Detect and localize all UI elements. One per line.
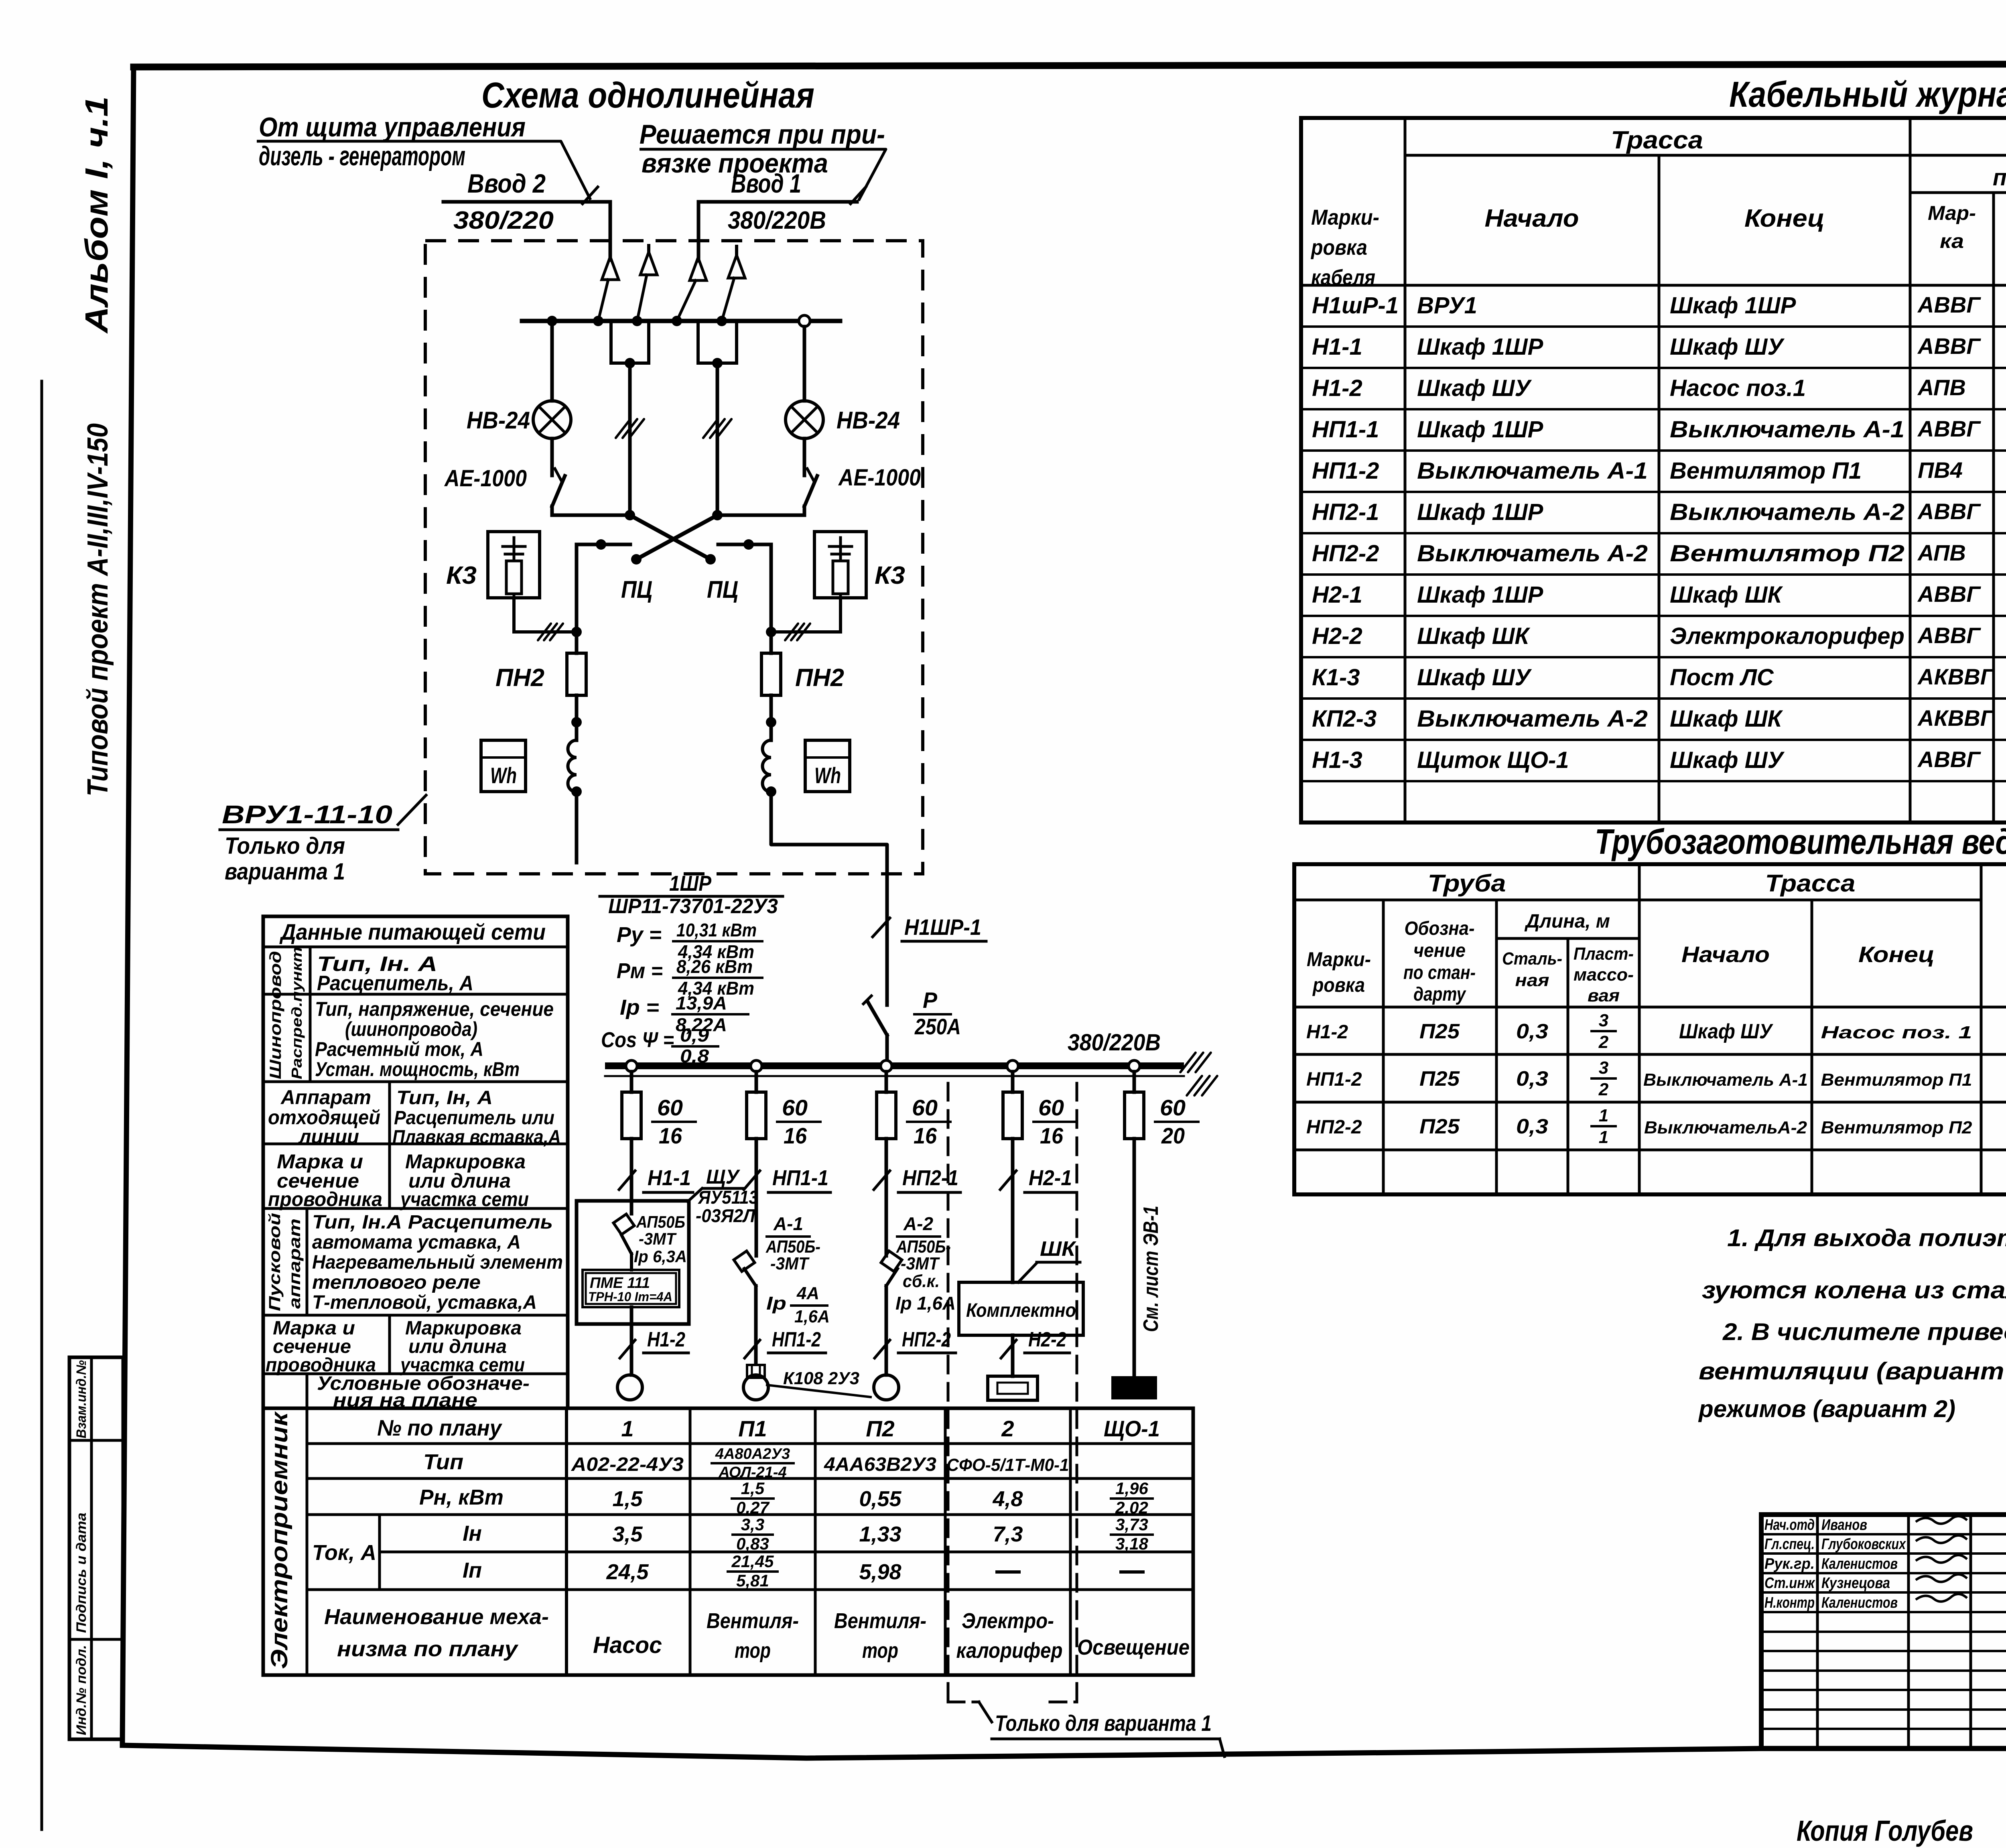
svg-text:Шинопровод: Шинопровод xyxy=(267,951,284,1079)
svg-text:Cos Ψ =: Cos Ψ = xyxy=(601,1028,674,1052)
svg-text:Нач.отд: Нач.отд xyxy=(1764,1517,1815,1533)
handwritten Копия Голубев xyxy=(1797,1815,1973,1847)
svg-text:А02-22-4У3: А02-22-4У3 xyxy=(571,1454,684,1475)
svg-text:Н1-2: Н1-2 xyxy=(1306,1021,1348,1043)
svg-text:чение: чение xyxy=(1413,940,1466,961)
svg-text:Шкаф ШУ: Шкаф ШУ xyxy=(1679,1020,1773,1043)
svg-text:Iр =: Iр = xyxy=(620,995,659,1019)
bottom-left stamp grid xyxy=(69,1357,123,1739)
wire breaker А-2 to motor П2 xyxy=(885,1286,888,1375)
svg-text:Шкаф ШУ: Шкаф ШУ xyxy=(1417,375,1532,401)
svg-text:Кузнецова: Кузнецова xyxy=(1821,1575,1890,1592)
wire right column to feeder exit xyxy=(771,792,887,874)
svg-text:АЕ-1000: АЕ-1000 xyxy=(838,465,921,491)
svg-text:АКВВГ: АКВВГ xyxy=(1917,705,1995,731)
svg-text:1: 1 xyxy=(621,1416,633,1441)
winding right (transformer coil) xyxy=(763,740,777,797)
svg-text:Ток, А: Ток, А xyxy=(312,1541,376,1565)
svg-text:4АА63В2У3: 4АА63В2У3 xyxy=(824,1454,936,1475)
svg-text:ровка: ровка xyxy=(1310,236,1367,260)
svg-text:ШК: ШК xyxy=(1040,1237,1076,1261)
svg-text:3,3: 3,3 xyxy=(741,1515,764,1534)
heater ЕК (Электрокалорифер) xyxy=(988,1376,1038,1400)
svg-text:Iр 6,3А: Iр 6,3А xyxy=(634,1247,687,1266)
svg-text:Iп: Iп xyxy=(463,1558,482,1582)
cable mark slashes right middle xyxy=(703,419,718,438)
svg-text:НП1-2: НП1-2 xyxy=(772,1328,821,1351)
svg-text:Вентиля-: Вентиля- xyxy=(834,1609,926,1633)
node bus tap 2 xyxy=(751,1060,762,1072)
svg-text:Выключатель А-2: Выключатель А-2 xyxy=(1417,706,1648,732)
formula Ру xyxy=(617,920,762,962)
svg-text:по проекту: по проекту xyxy=(1993,164,2006,191)
pipe row Н1-2 xyxy=(1306,1011,2006,1052)
svg-text:20: 20 xyxy=(1161,1123,1185,1148)
svg-text:ЩО-1: ЩО-1 xyxy=(1104,1416,1160,1441)
svg-text:Н2-2: Н2-2 xyxy=(1028,1328,1066,1351)
wire tap5 to panel ЩО-1 xyxy=(1133,1139,1136,1375)
svg-text:1,5: 1,5 xyxy=(612,1487,643,1511)
svg-text:60: 60 xyxy=(1038,1095,1064,1120)
svg-text:Плавкая вставка,А: Плавкая вставка,А xyxy=(392,1127,561,1148)
svg-text:Только для варианта 1: Только для варианта 1 xyxy=(995,1710,1212,1736)
svg-text:Тип: Тип xyxy=(423,1450,463,1474)
svg-text:Длина, м: Длина, м xyxy=(1524,911,1610,932)
svg-text:ПН2: ПН2 xyxy=(795,664,844,692)
svg-text:Глубоковских: Глубоковских xyxy=(1821,1536,1906,1553)
wire tap1 to cabinet ШУ xyxy=(630,1139,633,1214)
sheet frame bottom border xyxy=(122,1745,2006,1758)
svg-text:Каленистов: Каленистов xyxy=(1821,1594,1898,1611)
wire tap2 to breaker А-1 xyxy=(755,1139,758,1256)
svg-text:1: 1 xyxy=(1599,1127,1608,1147)
label А-2 АП50Б- -3МТ сб.к. xyxy=(896,1213,951,1291)
cell Аппарат отходящей линии xyxy=(268,1086,380,1148)
svg-text:ШР11-73701-22У3: ШР11-73701-22У3 xyxy=(608,895,778,918)
svg-text:0,3: 0,3 xyxy=(1516,1067,1548,1091)
label 60/16 xyxy=(1033,1095,1077,1148)
svg-text:2: 2 xyxy=(1598,1080,1609,1099)
svg-text:№ по плану: № по плану xyxy=(377,1415,503,1440)
svg-text:калорифер: калорифер xyxy=(956,1639,1063,1663)
crossover link ПЦ xyxy=(630,515,717,565)
svg-text:1,96: 1,96 xyxy=(1115,1479,1148,1498)
wire right pair to common point xyxy=(698,321,737,515)
circuit breaker А-1 АП50Б-3МТ xyxy=(734,1251,756,1286)
svg-text:Щиток ЩО-1: Щиток ЩО-1 xyxy=(1417,747,1569,773)
svg-text:НП2-1: НП2-1 xyxy=(902,1166,958,1190)
svg-text:Насос поз. 1: Насос поз. 1 xyxy=(1821,1023,1972,1042)
svg-text:АПВ: АПВ xyxy=(1917,375,1966,400)
svg-text:16: 16 xyxy=(659,1123,682,1148)
wire to right lamp xyxy=(803,327,806,401)
svg-text:3: 3 xyxy=(1599,1011,1608,1030)
svg-text:250А: 250А xyxy=(914,1014,961,1039)
svg-text:Марки-: Марки- xyxy=(1311,205,1379,229)
cable mark Н1-1 xyxy=(619,1166,693,1192)
wire bus upper xyxy=(522,319,840,323)
svg-text:60: 60 xyxy=(657,1095,683,1120)
svg-text:проводника: проводника xyxy=(268,1188,382,1210)
svg-text:Рм =: Рм = xyxy=(617,959,663,983)
label Р/250А xyxy=(914,987,961,1039)
label Iр 4А/1,6А xyxy=(766,1283,830,1326)
busbar 380/220В xyxy=(605,1062,1184,1076)
svg-text:1: 1 xyxy=(1599,1106,1608,1125)
wire К3 left to main xyxy=(514,598,582,637)
svg-text:Наименование меха-: Наименование меха- xyxy=(324,1605,549,1629)
svg-text:НП1-2: НП1-2 xyxy=(1306,1069,1362,1090)
svg-text:Шкаф ШК: Шкаф ШК xyxy=(1670,582,1783,608)
svg-text:Только для: Только для xyxy=(225,833,345,859)
svg-text:(шинопровода): (шинопровода) xyxy=(345,1018,477,1040)
svg-text:Трасса: Трасса xyxy=(1611,126,1703,154)
winding left (transformer coil) xyxy=(568,740,582,797)
svg-text:Вентиля-: Вентиля- xyxy=(707,1609,799,1633)
node open terminal on upper bus xyxy=(799,315,810,327)
formula Cos φ xyxy=(601,1025,718,1066)
svg-text:вентиляции (вариант 1), а в: вентиляции (вариант 1), а в знаменателе … xyxy=(1699,1358,2006,1385)
svg-text:0,83: 0,83 xyxy=(736,1534,769,1553)
wire left pair to common point xyxy=(611,321,649,515)
svg-text:Шкаф 1ШР: Шкаф 1ШР xyxy=(1417,499,1543,525)
svg-text:ная: ная xyxy=(1515,971,1549,990)
svg-text:ЯУ5113: ЯУ5113 xyxy=(698,1187,758,1208)
svg-text:Обозна-: Обозна- xyxy=(1405,918,1475,939)
svg-text:П25: П25 xyxy=(1419,1067,1460,1091)
svg-text:Электрокалорифер: Электрокалорифер xyxy=(1670,623,1904,649)
switch SA2 АЕ-1000 right xyxy=(804,469,817,515)
signature row Рук.гр. Каленистов xyxy=(1764,1555,1967,1572)
svg-text:Рн, кВт: Рн, кВт xyxy=(419,1485,504,1509)
wire right outgoing bracket xyxy=(718,539,771,632)
svg-text:Н2-2: Н2-2 xyxy=(1312,623,1362,649)
svg-text:Вентилятор П1: Вентилятор П1 xyxy=(1821,1070,1972,1090)
svg-text:Освещение: Освещение xyxy=(1077,1635,1190,1659)
svg-text:Кабельный журнал: Кабельный журнал xyxy=(1729,75,2006,115)
svg-text:участка сети: участка сети xyxy=(399,1188,529,1210)
label 1ШР / ШР11-73701-22У3 xyxy=(600,871,783,918)
label К108 2У3 xyxy=(767,1369,871,1397)
svg-text:НП1-1: НП1-1 xyxy=(1312,416,1379,443)
svg-text:Ввод 1: Ввод 1 xyxy=(731,169,801,198)
svg-text:НП1-1: НП1-1 xyxy=(772,1166,828,1190)
svg-text:Трубозаготовительная ведомост: Трубозаготовительная ведомость xyxy=(1595,822,2006,861)
note От щита управления дизель-генератором xyxy=(259,112,526,171)
svg-text:См. лист ЭВ-1: См. лист ЭВ-1 xyxy=(1139,1206,1163,1332)
lamp HL1 НВ-24 xyxy=(533,401,571,439)
journal row К1-3 xyxy=(1312,658,2006,703)
fuse FU1 ПН2 left xyxy=(567,632,586,740)
svg-text:Начало: Начало xyxy=(1485,205,1579,232)
svg-text:Подпись и дата: Подпись и дата xyxy=(74,1513,89,1633)
journal header Трасса Кабель xyxy=(1611,126,2006,191)
dashed enclosure ВРУ1-11-10 xyxy=(425,241,923,874)
svg-text:автомата уставка, А: автомата уставка, А xyxy=(312,1232,521,1253)
svg-text:Выключатель А-1: Выключатель А-1 xyxy=(1417,458,1648,484)
svg-text:Шкаф ШУ: Шкаф ШУ xyxy=(1670,747,1785,773)
svg-text:Wh: Wh xyxy=(490,763,517,788)
row Iп xyxy=(463,1552,1143,1590)
disconnect arrow 3 xyxy=(677,258,707,321)
svg-text:0,3: 0,3 xyxy=(1516,1115,1548,1138)
wire right lamp branch to crossover xyxy=(712,510,804,520)
svg-text:НП2-2: НП2-2 xyxy=(1306,1117,1362,1138)
svg-text:А-1: А-1 xyxy=(773,1213,803,1234)
journal row Н1-1 xyxy=(1312,327,2006,373)
svg-text:1,5: 1,5 xyxy=(741,1479,765,1498)
meter Wh right xyxy=(805,740,850,792)
pipe table headers xyxy=(1307,870,2006,1005)
svg-text:Пласт-: Пласт- xyxy=(1574,944,1634,964)
svg-text:3,73: 3,73 xyxy=(1115,1515,1148,1534)
fuse tap 4 60/16 xyxy=(1003,1072,1022,1139)
formula Iр xyxy=(620,993,748,1035)
svg-text:Р: Р xyxy=(923,987,938,1013)
svg-text:Пусковой: Пусковой xyxy=(266,1213,284,1311)
svg-text:НП2-2: НП2-2 xyxy=(902,1328,951,1351)
svg-text:Расцепитель, А: Расцепитель, А xyxy=(317,972,473,995)
node bus tap 5 xyxy=(1129,1060,1140,1072)
journal row Н1шР-1 xyxy=(1312,286,2006,326)
svg-text:От щита управления: От щита управления xyxy=(259,112,526,142)
wire Ввод 1 drop xyxy=(697,202,700,261)
svg-text:Н1-3: Н1-3 xyxy=(1312,747,1362,773)
svg-text:Н1-1: Н1-1 xyxy=(1312,334,1362,360)
svg-text:Иванов: Иванов xyxy=(1821,1517,1867,1533)
svg-text:Комплектно: Комплектно xyxy=(966,1300,1076,1321)
motor M2 П1 (Вентилятор) xyxy=(743,1375,768,1400)
svg-text:ВРУ1: ВРУ1 xyxy=(1417,292,1477,319)
svg-text:Ру =: Ру = xyxy=(617,923,662,947)
label ВРУ1-11-10 Только для варианта 1 xyxy=(220,800,398,885)
svg-text:3: 3 xyxy=(1599,1058,1608,1078)
svg-text:НВ-24: НВ-24 xyxy=(467,407,530,434)
svg-text:Н1-2: Н1-2 xyxy=(647,1328,685,1351)
box Комплектно xyxy=(959,1282,1083,1335)
wire left column lower end xyxy=(575,792,579,863)
formula Рм xyxy=(617,956,762,999)
journal header по проекту columns xyxy=(1928,196,2006,258)
svg-text:Копия Голубев: Копия Голубев xyxy=(1797,1815,1973,1847)
cable mark Н1ШР-1 xyxy=(873,914,986,941)
svg-text:ВРУ1-11-10: ВРУ1-11-10 xyxy=(222,800,392,829)
svg-text:дарту: дарту xyxy=(1413,984,1466,1005)
svg-text:Альбом I, ч.1: Альбом I, ч.1 xyxy=(79,96,114,334)
svg-text:АВВГ: АВВГ xyxy=(1917,292,1981,317)
lamp HL2 НВ-24 xyxy=(786,401,823,439)
svg-text:Конец: Конец xyxy=(1744,205,1825,232)
svg-text:21,45: 21,45 xyxy=(731,1552,774,1571)
label 60/16 xyxy=(777,1095,820,1148)
journal row НП2-1 xyxy=(1312,492,2006,538)
label А-1 АП50Б- -3МТ xyxy=(765,1213,820,1273)
svg-text:Н.контр: Н.контр xyxy=(1764,1594,1815,1611)
journal row НП1-1 xyxy=(1312,410,2006,455)
svg-text:5,81: 5,81 xyxy=(736,1571,769,1590)
svg-text:аппарат: аппарат xyxy=(286,1218,304,1309)
signature table grid xyxy=(1761,1515,2006,1748)
svg-text:Шкаф ШУ: Шкаф ШУ xyxy=(1417,664,1532,690)
svg-text:Расцепитель или: Расцепитель или xyxy=(394,1107,554,1129)
wire to left lamp xyxy=(550,321,554,401)
svg-text:АВВГ: АВВГ xyxy=(1917,581,1981,607)
pipe table grid xyxy=(1294,864,2006,1194)
svg-text:4А80А2У3: 4А80А2У3 xyxy=(715,1446,790,1462)
svg-text:Каленистов: Каленистов xyxy=(1821,1556,1898,1572)
svg-text:АКВВГ: АКВВГ xyxy=(1917,664,1995,689)
fuse tap 5 60/20 xyxy=(1125,1072,1144,1139)
svg-text:линии: линии xyxy=(298,1125,359,1148)
motor M3 П2 (Вентилятор) xyxy=(874,1375,899,1400)
svg-text:1,6А: 1,6А xyxy=(794,1307,830,1326)
cable journal table grid xyxy=(1301,118,2006,822)
svg-text:дизель - генератором: дизель - генератором xyxy=(259,141,465,171)
svg-text:К3: К3 xyxy=(875,562,905,589)
leader line from note to Ввод 2 xyxy=(257,141,598,204)
wire К3 right to main xyxy=(766,598,841,637)
svg-text:24,5: 24,5 xyxy=(606,1560,649,1584)
svg-text:Н2-1: Н2-1 xyxy=(1029,1166,1072,1190)
svg-text:1ШР: 1ШР xyxy=(669,871,712,896)
svg-text:Расчетный ток, А: Расчетный ток, А xyxy=(315,1038,483,1060)
svg-text:Нагревательный элемент: Нагревательный элемент xyxy=(312,1252,563,1273)
label АП50Б -3МТ Iр 6,3А xyxy=(634,1212,687,1266)
svg-text:АОЛ-21-4: АОЛ-21-4 xyxy=(718,1464,786,1481)
svg-text:АЕ-1000: АЕ-1000 xyxy=(444,465,527,491)
svg-text:380/220В: 380/220В xyxy=(728,207,826,234)
svg-text:АВВГ: АВВГ xyxy=(1917,499,1981,524)
svg-text:0,3: 0,3 xyxy=(1516,1020,1548,1043)
fuse tap 3 60/16 xyxy=(877,1072,896,1139)
node Ввод 2 feeder xyxy=(443,169,610,234)
leader line ЩУ to box xyxy=(688,1188,702,1202)
label 60/16 xyxy=(907,1095,950,1148)
disconnect arrow 1 xyxy=(598,257,619,321)
svg-text:Шкаф 1ШР: Шкаф 1ШР xyxy=(1417,416,1543,443)
svg-text:Аппарат: Аппарат xyxy=(280,1086,371,1109)
cell Марка и сечение проводника 1 xyxy=(268,1150,382,1210)
svg-text:Трасса: Трасса xyxy=(1765,870,1856,897)
svg-text:АПВ: АПВ xyxy=(1917,540,1966,565)
node bus tap 1 xyxy=(626,1060,637,1072)
current transformer box К3 left xyxy=(488,532,540,598)
svg-text:3,5: 3,5 xyxy=(612,1522,643,1546)
svg-text:Гл.спец.: Гл.спец. xyxy=(1764,1536,1815,1553)
starter box ПМЕ 111 ТРН-10 xyxy=(583,1270,679,1307)
circuit breaker АП50Б-3МТ in ШУ xyxy=(613,1214,634,1270)
svg-text:ка: ка xyxy=(1940,230,1964,252)
cable mark НП2-1 xyxy=(874,1166,960,1192)
svg-text:Схема однолинейная: Схема однолинейная xyxy=(481,75,814,116)
svg-text:Н1-2: Н1-2 xyxy=(1312,375,1362,401)
svg-text:5,98: 5,98 xyxy=(859,1560,901,1584)
node junction dots on upper bus xyxy=(547,316,727,326)
label Только для варианта 1 xyxy=(992,1710,1224,1757)
svg-text:Сталь-: Сталь- xyxy=(1502,949,1562,969)
svg-text:380/220В: 380/220В xyxy=(1068,1030,1161,1056)
row Наименование механизма xyxy=(324,1605,1190,1663)
sheet frame top border xyxy=(134,63,2006,67)
rotated label Шинопровод Распред.пункт xyxy=(267,947,305,1079)
svg-text:Насос: Насос xyxy=(593,1632,662,1658)
svg-text:3,18: 3,18 xyxy=(1115,1534,1148,1553)
journal row Н2-1 xyxy=(1312,575,2006,615)
note Решается при привязке проекта xyxy=(640,119,885,179)
cell Маркировка или длина 1 xyxy=(399,1150,529,1210)
svg-text:Решается при при-: Решается при при- xyxy=(640,119,885,150)
svg-text:ТРН-10 Iт=4А: ТРН-10 Iт=4А xyxy=(588,1290,672,1304)
cell Тип напряжение сечение xyxy=(315,998,554,1080)
svg-text:Выключатель А-2: Выключатель А-2 xyxy=(1417,540,1648,567)
svg-text:Тип, Iн.А Расцепитель: Тип, Iн.А Расцепитель xyxy=(312,1212,553,1233)
row Рн кВт xyxy=(419,1479,1153,1517)
svg-text:П25: П25 xyxy=(1419,1020,1460,1043)
cable mark НП1-2 xyxy=(745,1328,826,1358)
wire left lamp branch to crossover xyxy=(552,510,635,520)
svg-text:Устан. мощность, кВт: Устан. мощность, кВт xyxy=(315,1058,520,1080)
svg-text:0,9: 0,9 xyxy=(680,1025,709,1046)
svg-text:-03Я2Л: -03Я2Л xyxy=(696,1205,755,1226)
journal header Маркировка кабеля xyxy=(1310,205,1379,290)
svg-text:НВ-24: НВ-24 xyxy=(837,407,900,434)
label 60/16 xyxy=(652,1095,696,1148)
disconnect arrow 4 xyxy=(722,246,745,321)
svg-text:Шкаф 1ШР: Шкаф 1ШР xyxy=(1417,334,1543,360)
svg-text:А-2: А-2 xyxy=(903,1213,933,1234)
svg-text:-3МТ: -3МТ xyxy=(901,1254,940,1273)
svg-text:Конец: Конец xyxy=(1858,942,1935,967)
rotated label Пусковой аппарат xyxy=(266,1213,304,1311)
row № по плану xyxy=(377,1415,1160,1441)
svg-text:Вентилятор П2: Вентилятор П2 xyxy=(1670,540,1904,567)
svg-text:2,02: 2,02 xyxy=(1115,1498,1148,1517)
svg-text:4А: 4А xyxy=(796,1283,819,1303)
svg-text:КП2-3: КП2-3 xyxy=(1312,706,1377,732)
svg-text:ПЦ: ПЦ xyxy=(707,576,738,603)
svg-text:8,26 кВт: 8,26 кВт xyxy=(676,956,753,977)
wire breaker А-1 to motor П1 xyxy=(754,1286,758,1364)
svg-text:Шкаф 1ШР: Шкаф 1ШР xyxy=(1417,582,1543,608)
svg-text:Iн: Iн xyxy=(463,1521,482,1545)
svg-text:Насос поз.1: Насос поз.1 xyxy=(1670,375,1806,401)
svg-text:Iр: Iр xyxy=(766,1293,786,1314)
label ШК xyxy=(1018,1237,1080,1282)
svg-text:Взам.инд.№: Взам.инд.№ xyxy=(74,1360,89,1438)
dashed variant-1 boundary right xyxy=(1076,1083,1078,1702)
consumers table grid xyxy=(263,1408,1193,1675)
svg-text:Электро-: Электро- xyxy=(962,1609,1054,1633)
svg-text:режимов (вариант 2): режимов (вариант 2) xyxy=(1698,1395,1955,1422)
svg-text:К108 2У3: К108 2У3 xyxy=(783,1369,859,1388)
label 60/20 xyxy=(1155,1095,1198,1148)
cell Тип Iн А Расцепитель или xyxy=(392,1087,561,1148)
svg-text:НП2-2: НП2-2 xyxy=(1312,540,1379,567)
label ЩУ ЯУ5113-03Я2Л xyxy=(696,1166,758,1226)
svg-text:теплового реле: теплового реле xyxy=(312,1272,481,1293)
svg-text:Выключатель А-1: Выключатель А-1 xyxy=(1643,1070,1808,1090)
signature row Н.контр Каленистов xyxy=(1764,1594,1967,1611)
journal row Н1-3 xyxy=(1312,740,2006,786)
svg-text:Т-тепловой, уставка,А: Т-тепловой, уставка,А xyxy=(312,1292,537,1313)
cable mark Н1-2 xyxy=(620,1328,688,1358)
journal row НП1-2 xyxy=(1312,451,2006,497)
svg-text:2. В числителе приведены д: 2. В числителе приведены данные для трёх… xyxy=(1722,1318,2006,1345)
svg-text:Н1шР-1: Н1шР-1 xyxy=(1312,292,1399,319)
wire ШУ to motor 1 xyxy=(630,1307,633,1375)
svg-text:16: 16 xyxy=(784,1123,807,1148)
svg-text:массо-: массо- xyxy=(1574,965,1634,985)
